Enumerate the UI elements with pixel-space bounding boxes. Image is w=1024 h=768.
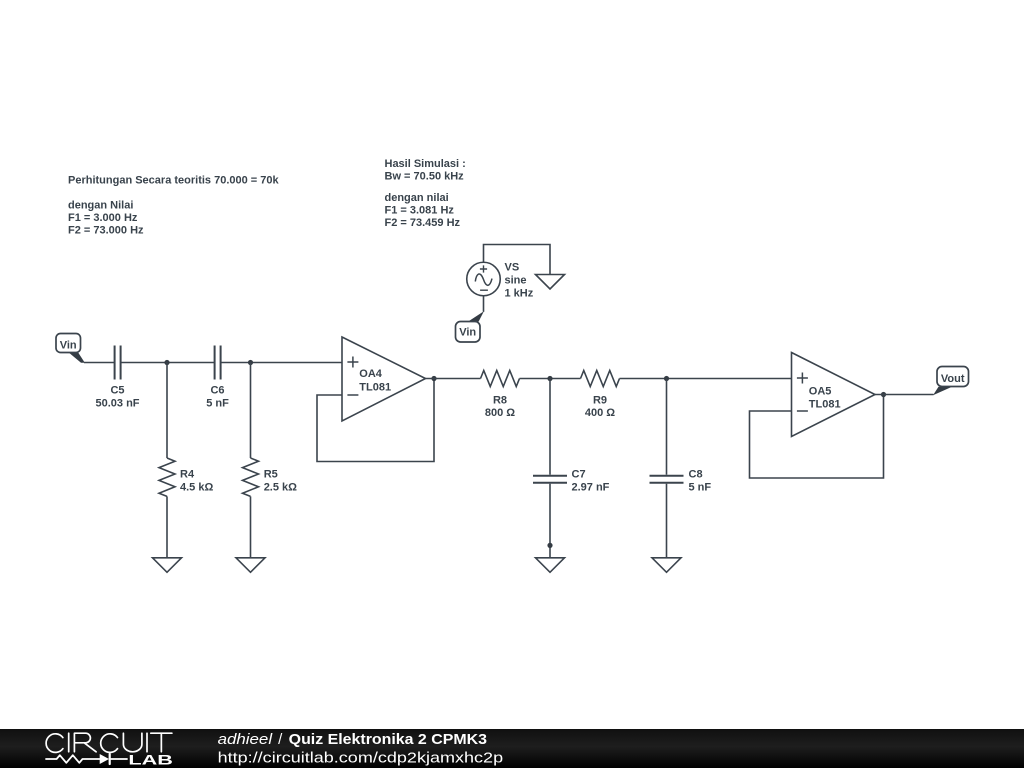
svg-text:dengan Nilai: dengan Nilai: [68, 200, 133, 212]
wire OA4 feedback loop: [317, 379, 434, 462]
node junction dot OA5 output: [881, 392, 886, 397]
resistor R4: [159, 458, 213, 496]
node junction dot OA4 output: [431, 376, 436, 381]
svg-text:5 nF: 5 nF: [689, 481, 712, 493]
svg-text:400 Ω: 400 Ω: [585, 407, 615, 419]
wire OA5 feedback loop: [750, 395, 884, 479]
wire VS top loop to ground: [484, 245, 551, 275]
svg-text:C5: C5: [110, 385, 124, 397]
wire C5 to C6: [121, 362, 214, 364]
wire Vin to C5: [84, 362, 114, 364]
svg-text:R9: R9: [593, 394, 607, 406]
CircuitLab logo: [46, 733, 172, 764]
logo letter C: [46, 733, 63, 752]
ground (C8): [652, 558, 681, 573]
capacitor C6: [206, 346, 229, 410]
logo resistor zigzag: [46, 755, 100, 763]
annotation text left: [68, 174, 280, 236]
svg-text:/: /: [278, 731, 283, 748]
wire C7 to ground: [549, 484, 551, 558]
svg-text:F2 = 73.459 Hz: F2 = 73.459 Hz: [385, 217, 461, 229]
svg-text:Vin: Vin: [60, 340, 77, 352]
logo letter T: [151, 733, 172, 752]
svg-text:800 Ω: 800 Ω: [485, 407, 515, 419]
logo letter R: [74, 733, 96, 752]
svg-text:adhieel: adhieel: [218, 731, 273, 748]
resistor R9: [581, 371, 620, 420]
svg-text:5 nF: 5 nF: [206, 397, 229, 409]
svg-text:Vout: Vout: [941, 373, 965, 385]
node junction dot D: [664, 376, 669, 381]
resistor R5: [243, 458, 298, 496]
svg-text:Bw = 70.50 kHz: Bw = 70.50 kHz: [385, 171, 465, 183]
svg-text:sine: sine: [505, 275, 527, 287]
svg-text:TL081: TL081: [809, 399, 841, 411]
svg-text:R4: R4: [180, 469, 195, 481]
logo letter I2: [146, 733, 148, 752]
svg-text:VS: VS: [505, 261, 520, 273]
ground (R4): [153, 558, 182, 573]
capacitor C8: [650, 469, 712, 494]
svg-text:Vin: Vin: [459, 327, 476, 339]
capacitor C7: [533, 469, 610, 494]
wire C8 to ground: [666, 484, 668, 558]
svg-text:TL081: TL081: [359, 381, 391, 393]
svg-text:C6: C6: [210, 385, 224, 397]
svg-text:F1 = 3.000 Hz: F1 = 3.000 Hz: [68, 212, 138, 224]
node Vout label: [933, 367, 969, 396]
svg-text:1 kHz: 1 kHz: [505, 287, 534, 299]
op-amp OA5: [792, 353, 876, 437]
svg-text:OA4: OA4: [359, 368, 383, 380]
svg-text:Quiz Elektronika 2 CPMK3: Quiz Elektronika 2 CPMK3: [289, 731, 487, 748]
svg-text:2.5 kΩ: 2.5 kΩ: [264, 481, 297, 493]
logo diode: [100, 754, 109, 764]
svg-text:50.03 nF: 50.03 nF: [95, 397, 139, 409]
wire R8 to R9: [520, 378, 581, 380]
ground (VS): [536, 275, 565, 290]
svg-text:R8: R8: [493, 394, 507, 406]
svg-text:http://circuitlab.com/cdp2kjam: http://circuitlab.com/cdp2kjamxhc2p: [218, 749, 504, 766]
wire node B down to R5: [250, 363, 252, 459]
wire VS bottom to Vin tail: [483, 296, 485, 312]
node junction dot B: [248, 360, 253, 365]
node Vin (source label): [456, 311, 484, 342]
op-amp OA4: [342, 337, 426, 421]
logo letter C2: [101, 733, 118, 752]
svg-text:dengan nilai: dengan nilai: [385, 192, 449, 204]
wire OA5 output to Vout: [875, 394, 934, 396]
ground (C7): [536, 558, 565, 573]
capacitor C5: [95, 346, 139, 410]
svg-text:C7: C7: [572, 469, 586, 481]
wire R4 to ground: [166, 496, 168, 557]
resistor R8: [481, 371, 520, 420]
svg-text:Hasil Simulasi :: Hasil Simulasi :: [385, 158, 466, 170]
node Vin (left label): [56, 334, 85, 363]
ground (R5): [236, 558, 265, 573]
wire node C down to C7: [549, 379, 551, 475]
node junction dot C: [547, 376, 552, 381]
wire OA4 output to R8: [426, 378, 481, 380]
wire R5 to ground: [250, 496, 252, 557]
svg-text:Perhitungan Secara teoritis 70: Perhitungan Secara teoritis 70.000 = 70k: [68, 174, 280, 186]
svg-text:R5: R5: [264, 469, 278, 481]
footer bar: [0, 729, 1024, 768]
svg-text:OA5: OA5: [809, 385, 832, 397]
wire node A down to R4: [166, 363, 168, 459]
svg-text:F1 = 3.081 Hz: F1 = 3.081 Hz: [385, 204, 455, 216]
svg-text:LAB: LAB: [128, 751, 173, 767]
node junction dot A: [164, 360, 169, 365]
wire C6 to op-amp: [221, 362, 342, 364]
node junction dot above C7 ground: [547, 543, 552, 548]
svg-text:C8: C8: [689, 469, 703, 481]
wire R9 to OA5: [620, 378, 792, 380]
svg-text:4.5 kΩ: 4.5 kΩ: [180, 481, 213, 493]
svg-text:2.97 nF: 2.97 nF: [572, 481, 610, 493]
voltage source VS: [467, 261, 534, 299]
annotation text right: [385, 158, 466, 229]
wire node D down to C8: [666, 379, 668, 475]
logo letter U: [123, 733, 141, 752]
svg-text:F2 = 73.000 Hz: F2 = 73.000 Hz: [68, 225, 144, 237]
logo letter I: [68, 733, 70, 752]
